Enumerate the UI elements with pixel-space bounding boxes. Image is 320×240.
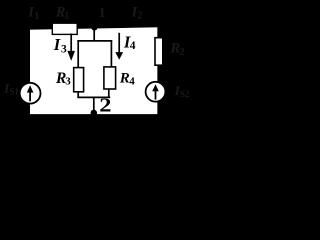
- current arrow I4: [115, 33, 123, 60]
- svg-text:1: 1: [99, 5, 106, 20]
- node 1 junction dot: [91, 25, 97, 31]
- label R4: [119, 71, 135, 88]
- resistor R1: [52, 23, 77, 34]
- svg-text:3: 3: [61, 43, 67, 55]
- wire left: [28, 27, 30, 116]
- svg-text:R: R: [119, 71, 130, 87]
- svg-text:1: 1: [64, 11, 69, 22]
- node 2 junction dot: [91, 110, 98, 117]
- svg-text:3: 3: [65, 76, 71, 88]
- svg-text:S1: S1: [9, 87, 19, 97]
- label I3: [53, 35, 67, 55]
- svg-text:2: 2: [99, 94, 111, 116]
- wire node1 drop: [93, 28, 95, 42]
- faint label R2 (dimmed outside crop): [169, 41, 184, 58]
- svg-text:S2: S2: [180, 89, 190, 99]
- current arrow I3: [67, 34, 75, 61]
- resistor R4: [104, 67, 116, 89]
- faint node 1 label (dimmed outside crop): [99, 5, 106, 20]
- resistor R3: [74, 68, 84, 92]
- current source IS2: [146, 82, 166, 102]
- wire lower bus: [77, 96, 110, 98]
- resistor R2: [155, 38, 163, 65]
- wire R3 bottom lead: [77, 92, 79, 98]
- node 2 label: [99, 94, 111, 116]
- svg-text:4: 4: [129, 75, 135, 87]
- label R3: [55, 70, 71, 88]
- wire R3 top lead: [77, 40, 79, 69]
- svg-text:2: 2: [137, 11, 142, 22]
- wire top: [27, 26, 160, 29]
- faint label I2 (dimmed outside crop): [131, 4, 143, 21]
- svg-text:1: 1: [34, 11, 39, 22]
- wire upper bus: [77, 40, 112, 42]
- faint label IS2 (dimmed outside crop): [174, 83, 190, 99]
- wire R4 top lead: [110, 40, 112, 68]
- svg-text:I: I: [53, 35, 61, 54]
- wire R4 bottom lead: [108, 89, 110, 98]
- wire node2 drop: [93, 97, 95, 115]
- circuit white area: [28, 27, 158, 115]
- faint label I1 (dimmed outside crop): [27, 5, 39, 22]
- current source IS1: [20, 83, 41, 104]
- wire bottom: [27, 114, 160, 117]
- label I4: [123, 33, 136, 52]
- faint label IS1 (dimmed outside crop): [3, 80, 19, 96]
- wire right: [157, 26, 159, 116]
- svg-text:4: 4: [130, 40, 136, 52]
- faint label R1 (dimmed outside crop): [55, 4, 70, 21]
- svg-text:2: 2: [179, 47, 184, 58]
